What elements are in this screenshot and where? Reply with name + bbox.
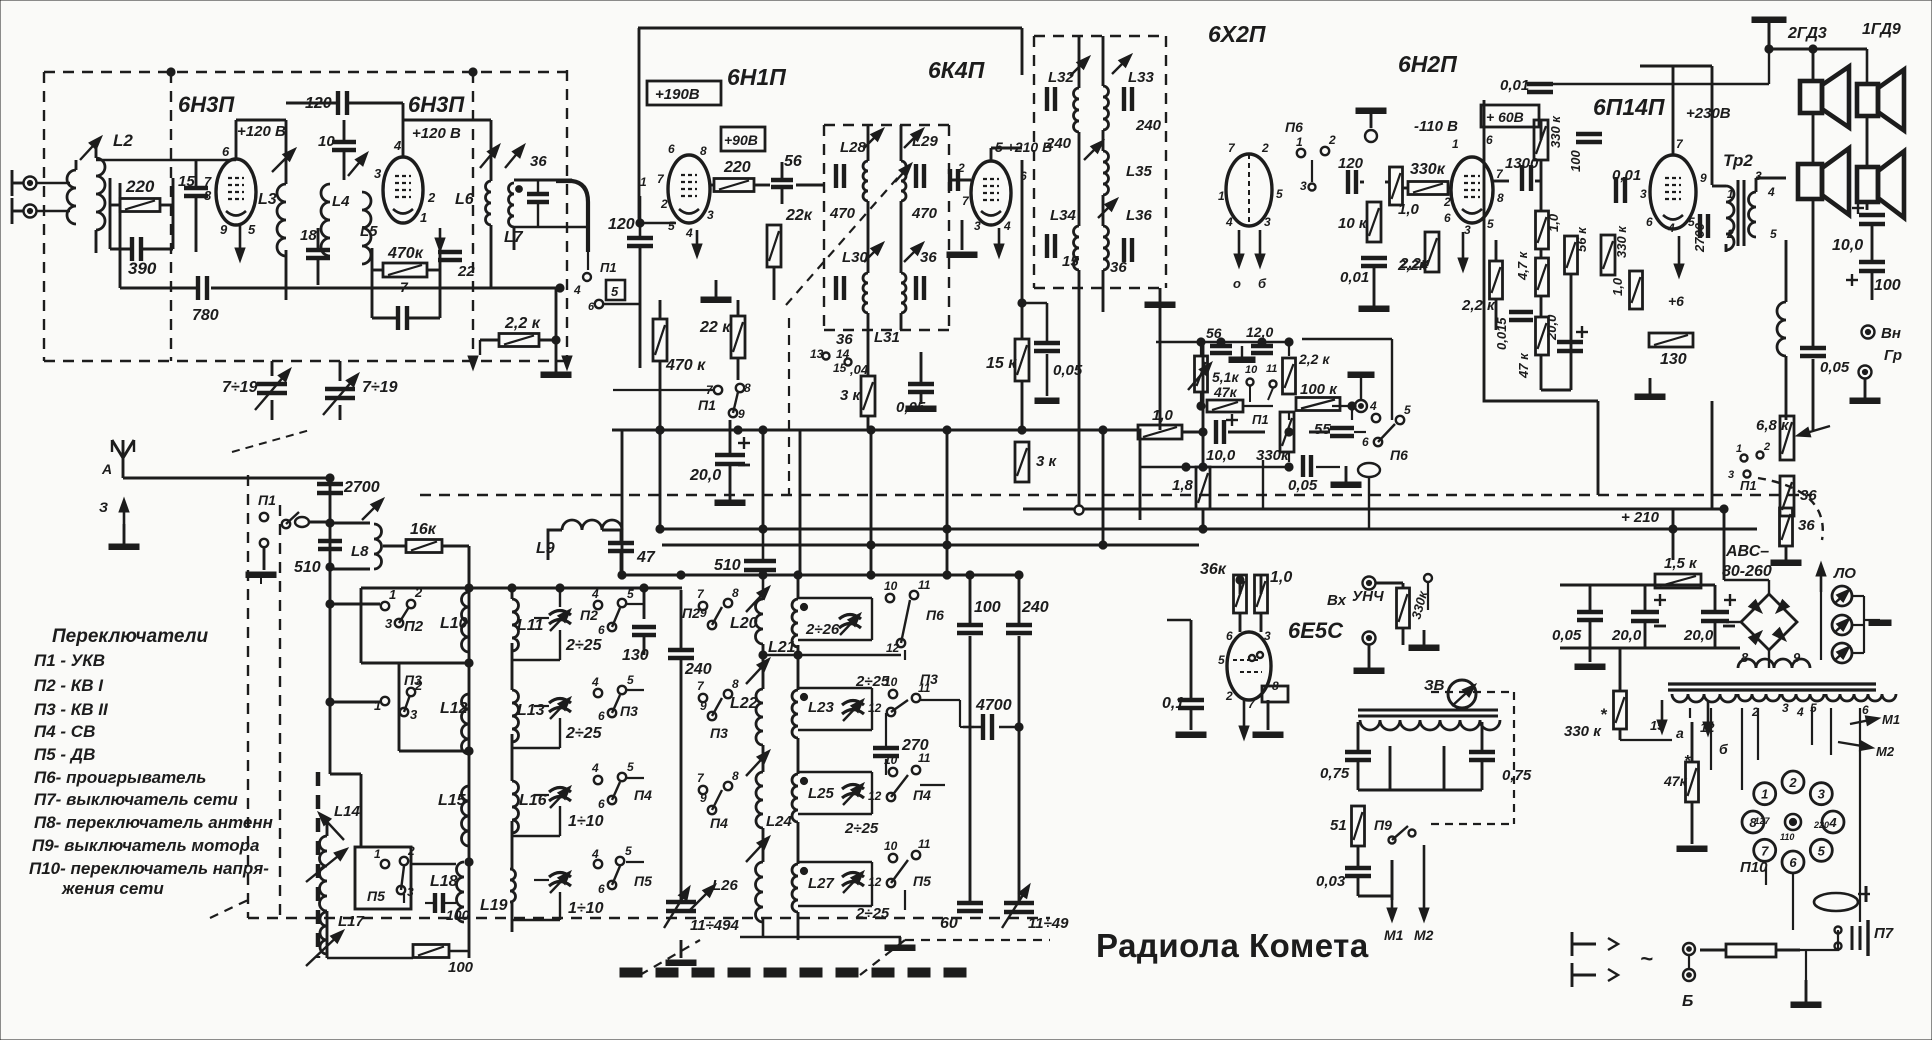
svg-text:L15: L15 bbox=[438, 792, 467, 809]
svg-text:780: 780 bbox=[192, 307, 219, 324]
svg-text:+190В: +190В bbox=[655, 86, 700, 103]
trimmer osc4 bbox=[842, 871, 864, 893]
tuning arrow L24 bbox=[746, 750, 770, 776]
svg-text:3: 3 bbox=[1264, 629, 1271, 643]
svg-text:L13: L13 bbox=[517, 702, 545, 719]
coil L36 bbox=[1103, 226, 1109, 270]
resistor 470к grid bbox=[653, 319, 667, 361]
tuning arrow L7 bbox=[505, 144, 525, 168]
capacitor 100 v6 bbox=[1576, 134, 1602, 142]
label 6Н1П bbox=[727, 64, 786, 90]
dashed mech link vertical bbox=[788, 318, 790, 495]
svg-text:Вн: Вн bbox=[1881, 325, 1901, 342]
wire vert 622 bbox=[621, 430, 624, 575]
svg-text:3: 3 bbox=[1818, 787, 1826, 802]
label L16 bbox=[519, 792, 547, 809]
wire socket down bbox=[1766, 867, 1793, 930]
capacitor L36 cap bbox=[1124, 238, 1132, 262]
label 120 det bbox=[1338, 155, 1364, 172]
pt pins bbox=[1650, 701, 1869, 757]
label L20 bbox=[730, 615, 758, 632]
capacitor 2700 bbox=[317, 484, 343, 493]
resistor 5,1к bbox=[1188, 356, 1212, 392]
svg-text:2: 2 bbox=[1443, 195, 1451, 209]
label 0,01 v7 bbox=[1612, 167, 1641, 184]
resistor 47к v6 bbox=[1536, 317, 1549, 355]
transformer Tr2 primary bbox=[1726, 186, 1734, 250]
svg-text:120: 120 bbox=[608, 216, 635, 233]
label 20,0 vert bbox=[1544, 314, 1559, 341]
capacitor 130 bbox=[632, 627, 656, 635]
label L22 bbox=[730, 695, 758, 712]
wire lamps bbox=[1821, 592, 1891, 660]
label L26 bbox=[690, 877, 739, 910]
svg-text:220: 220 bbox=[723, 159, 751, 176]
svg-text:10,0: 10,0 bbox=[1206, 447, 1236, 464]
antenna input jack upper bbox=[24, 177, 37, 190]
label +120 В second bbox=[412, 125, 461, 142]
label 47 bbox=[636, 549, 656, 566]
capacitor 120 det bbox=[1348, 170, 1356, 194]
coil L11 bbox=[512, 599, 519, 651]
capacitor 0,015 bbox=[1509, 312, 1533, 320]
label Б bbox=[1682, 993, 1693, 1010]
label 56 row bbox=[1206, 324, 1273, 341]
ground top right bbox=[1752, 17, 1786, 49]
capacitor grid 6к4п bbox=[950, 169, 958, 191]
label L8 bbox=[351, 543, 369, 560]
label L28 bbox=[840, 139, 867, 156]
svg-text:22: 22 bbox=[457, 263, 475, 280]
svg-text:5: 5 bbox=[1818, 843, 1826, 858]
svg-text:6: 6 bbox=[598, 623, 605, 637]
legend П4-СВ bbox=[34, 722, 95, 741]
svg-text:а: а bbox=[1676, 725, 1684, 741]
svg-text:4: 4 bbox=[591, 847, 599, 861]
label +210 В bbox=[995, 139, 1052, 155]
label 5,1к bbox=[1212, 369, 1239, 385]
wire top bus of IF box bbox=[638, 27, 1022, 30]
label L27 bbox=[808, 875, 835, 892]
coil L32 bbox=[1074, 88, 1080, 132]
svg-text:0,05: 0,05 bbox=[1288, 477, 1318, 494]
coil L22 bbox=[756, 689, 763, 745]
wire П1 to line bbox=[308, 519, 334, 527]
svg-text:L6: L6 bbox=[455, 191, 474, 208]
wire vert 763 up bbox=[759, 426, 767, 529]
svg-text:15: 15 bbox=[1062, 253, 1079, 270]
tuning arrow L6 bbox=[480, 144, 500, 168]
svg-text:4: 4 bbox=[1225, 215, 1233, 229]
bridge rectifier bbox=[1741, 594, 1797, 650]
tuner dashed diag bottom-left bbox=[210, 900, 700, 975]
tuner dashed box left edge bbox=[248, 475, 280, 918]
svg-text:10: 10 bbox=[318, 133, 335, 150]
svg-text:240: 240 bbox=[1045, 135, 1072, 152]
svg-text:5: 5 bbox=[627, 673, 634, 687]
svg-text:6К4П: 6К4П bbox=[928, 57, 985, 83]
label 20,0 b bbox=[1683, 627, 1714, 644]
wire det area bbox=[1312, 160, 1452, 188]
tuning arrow L36 bbox=[1098, 198, 1118, 218]
svg-text:М2: М2 bbox=[1414, 927, 1434, 943]
label 1,8 bbox=[1172, 477, 1194, 494]
label 10,0 bbox=[1832, 237, 1863, 254]
svg-text:330к: 330к bbox=[1410, 161, 1446, 178]
power transformer core bbox=[1668, 684, 1876, 690]
pins 10 11 mid bbox=[1245, 363, 1277, 402]
label 3 к if bbox=[840, 387, 862, 404]
capacitor 56 12 row bbox=[1210, 346, 1273, 353]
fuse bbox=[1700, 944, 1800, 957]
svg-text:3: 3 bbox=[974, 219, 981, 233]
label 6К4П bbox=[928, 57, 985, 83]
legend П7 bbox=[34, 790, 238, 809]
label 2700 vert bbox=[1692, 222, 1707, 253]
label 330 к vert bbox=[1548, 115, 1563, 148]
capacitor 10 bbox=[332, 142, 356, 150]
tuning arrow L3 bbox=[272, 148, 296, 172]
svg-text:L28: L28 bbox=[840, 139, 867, 156]
wire vert 871 bbox=[870, 430, 873, 575]
label ЛО bbox=[1833, 565, 1856, 582]
label +230В bbox=[1686, 105, 1731, 122]
tube V1 6N3P-a bbox=[216, 159, 256, 225]
terminal Вх1 bbox=[1363, 577, 1376, 590]
resistor 220 anode bbox=[714, 179, 754, 192]
svg-text:56: 56 bbox=[784, 153, 802, 170]
svg-text:0,75: 0,75 bbox=[1320, 765, 1350, 782]
svg-text:47 к: 47 к bbox=[1516, 352, 1531, 379]
tuning arrow 2700 bbox=[362, 498, 384, 520]
coil L24 bbox=[756, 772, 763, 828]
label 10 к bbox=[1338, 215, 1368, 232]
svg-text:L11: L11 bbox=[517, 617, 543, 634]
svg-text:18: 18 bbox=[300, 227, 317, 244]
pin 9 bbox=[220, 222, 228, 237]
electrolytic 10,0 bbox=[1216, 414, 1238, 444]
label 1,0 det bbox=[1398, 201, 1420, 218]
svg-text:47к: 47к bbox=[1213, 384, 1238, 400]
label L9 bbox=[536, 540, 555, 557]
box +90В bbox=[721, 127, 765, 151]
wire mid links bbox=[1138, 338, 1366, 529]
svg-text:11÷494: 11÷494 bbox=[690, 917, 739, 934]
coil L14 bbox=[320, 820, 327, 958]
resistor 47к mid bbox=[1207, 400, 1243, 412]
svg-text:110: 110 bbox=[1780, 832, 1794, 842]
switch П6b bbox=[884, 578, 944, 655]
svg-text:+6: +6 bbox=[1668, 293, 1684, 309]
svg-text:127: 127 bbox=[1754, 816, 1770, 826]
svg-text:240: 240 bbox=[1135, 117, 1162, 134]
pin 3 bbox=[374, 166, 382, 181]
resistor 36 ps bbox=[1780, 508, 1793, 546]
label L13 bbox=[517, 702, 545, 719]
svg-text:L17: L17 bbox=[338, 913, 365, 930]
label 470к ukv bbox=[387, 245, 424, 262]
svg-text:4: 4 bbox=[1369, 399, 1377, 413]
svg-text:0,75: 0,75 bbox=[1502, 767, 1532, 784]
capacitor 60 bbox=[957, 903, 983, 911]
label П1 mid bbox=[1252, 412, 1269, 427]
terminal Гр bbox=[1859, 347, 1903, 379]
wire bus mid2 bbox=[660, 525, 1757, 533]
resistor 330к v6 vert bbox=[1534, 120, 1548, 160]
svg-text:б: б bbox=[1258, 276, 1267, 291]
wire 330k ps bbox=[1620, 648, 1672, 740]
svg-text:2: 2 bbox=[1788, 775, 1797, 790]
svg-text:470: 470 bbox=[911, 205, 938, 222]
label 22к anode2 bbox=[785, 207, 813, 224]
svg-text:9: 9 bbox=[1700, 171, 1707, 185]
svg-text:11÷49: 11÷49 bbox=[1028, 915, 1069, 932]
svg-text:510: 510 bbox=[714, 557, 741, 574]
label L23 bbox=[808, 699, 835, 716]
wire bridge leads bbox=[1724, 580, 1769, 668]
label 2,2 к ukv bbox=[504, 315, 541, 332]
svg-text:7: 7 bbox=[1761, 843, 1769, 858]
label 36 ps bbox=[1798, 517, 1815, 534]
capacitor 56 top bbox=[771, 162, 793, 204]
svg-text:36: 36 bbox=[530, 153, 547, 170]
trimmer cap L13 bbox=[549, 697, 571, 719]
label 390 bbox=[128, 259, 157, 278]
label 0,05 agc bbox=[1053, 362, 1083, 379]
capacitor 0,05 agc bbox=[1018, 299, 1060, 404]
svg-text:3: 3 bbox=[1464, 223, 1471, 237]
label L5 bbox=[360, 223, 378, 240]
label 11÷49 bbox=[1028, 915, 1069, 932]
capacitor 47 bbox=[608, 543, 634, 551]
switch П1 antenna bbox=[258, 492, 309, 547]
wire row2 box bbox=[399, 663, 468, 751]
variable cap 7-19 first bbox=[255, 368, 291, 410]
svg-text:5: 5 bbox=[1770, 227, 1777, 241]
svg-text:1,0: 1,0 bbox=[1398, 201, 1420, 218]
coil L4 bbox=[321, 184, 330, 256]
label 56к vert bbox=[1574, 226, 1589, 252]
capacitor L34 cap bbox=[1047, 234, 1055, 258]
svg-text:3: 3 bbox=[1728, 469, 1734, 481]
legend П1-УКВ bbox=[34, 651, 105, 670]
svg-text:5: 5 bbox=[248, 222, 256, 237]
arrow L14 bbox=[318, 812, 344, 840]
tuning arrow L31 bbox=[904, 242, 924, 262]
svg-text:6: 6 bbox=[1862, 703, 1869, 717]
svg-text:56 к: 56 к bbox=[1574, 226, 1589, 252]
switch П5c bbox=[868, 837, 931, 889]
svg-text:220: 220 bbox=[125, 177, 155, 196]
svg-text:6: 6 bbox=[588, 301, 595, 313]
resistor 2,2к v6b bbox=[1490, 261, 1503, 299]
svg-text:330 к: 330 к bbox=[1548, 115, 1563, 148]
svg-text:15 к: 15 к bbox=[986, 355, 1017, 372]
svg-text:2: 2 bbox=[1328, 133, 1336, 147]
capacitor 0,03 bbox=[1345, 868, 1371, 876]
svg-text:5: 5 bbox=[627, 760, 634, 774]
ground 36 ps bbox=[1771, 546, 1801, 566]
wire if box bbox=[868, 125, 936, 430]
svg-text:L21: L21 bbox=[768, 639, 796, 656]
capacitor 1300 bbox=[1522, 165, 1531, 191]
svg-text:1÷10: 1÷10 bbox=[568, 813, 604, 830]
svg-text:2,2 к: 2,2 к bbox=[1298, 351, 1330, 367]
svg-text:12: 12 bbox=[886, 641, 900, 655]
svg-text:10 к: 10 к bbox=[1338, 215, 1368, 232]
label 36 spk bbox=[1800, 487, 1817, 504]
svg-text:2: 2 bbox=[660, 197, 668, 211]
tuning arrow L22 bbox=[746, 658, 770, 684]
resistor 1,0 det bbox=[1390, 167, 1403, 205]
svg-text:12: 12 bbox=[868, 789, 882, 803]
label 120 top bbox=[305, 95, 332, 112]
resistor 10к det bbox=[1367, 202, 1381, 242]
svg-text:2÷25: 2÷25 bbox=[855, 905, 890, 922]
svg-text:+ 60В: + 60В bbox=[1486, 109, 1524, 125]
electrolytic 20,0 v6 bbox=[1557, 326, 1588, 351]
svg-text:+90В: +90В bbox=[724, 132, 758, 148]
switch П3c bbox=[697, 677, 739, 741]
svg-text:П8- переключатель антенн: П8- переключатель антенн bbox=[34, 813, 273, 832]
wire L3 bbox=[280, 120, 286, 300]
svg-text:6: 6 bbox=[222, 144, 230, 159]
pin 7 bbox=[204, 174, 212, 189]
wire L8-16k bbox=[383, 546, 469, 588]
svg-text:3: 3 bbox=[1264, 215, 1271, 229]
capacitor 240b osc bbox=[1006, 625, 1032, 633]
label L19 bbox=[480, 897, 508, 914]
label 51 bbox=[1330, 817, 1347, 834]
svg-text:L8: L8 bbox=[351, 543, 369, 560]
pins 6Н2П v6 bbox=[1443, 133, 1504, 237]
wire v7 top bbox=[1640, 66, 1712, 185]
svg-text:L14: L14 bbox=[334, 803, 361, 820]
ground terminals bbox=[1850, 378, 1880, 404]
pin 6 bbox=[222, 144, 230, 159]
svg-text:L24: L24 bbox=[766, 813, 793, 830]
label 330к v7 vert bbox=[1614, 225, 1629, 258]
switch П1 bottom bbox=[698, 381, 751, 421]
wire v8 bbox=[1167, 575, 1283, 738]
coil L12 bbox=[462, 694, 469, 754]
wire varcap stubs bbox=[272, 361, 340, 420]
svg-text:8: 8 bbox=[700, 144, 707, 158]
wire 6n1p misc bbox=[660, 267, 774, 430]
svg-text:100 к: 100 к bbox=[1300, 381, 1338, 398]
wire vert 1712 bbox=[1711, 401, 1714, 509]
capacitor 120 top bbox=[338, 91, 347, 115]
wire vert right col bbox=[1597, 401, 1600, 495]
legend П6 bbox=[34, 768, 206, 787]
variable cap 7-19 second bbox=[323, 373, 359, 415]
capacitor L29 right bbox=[916, 164, 924, 188]
svg-text:7÷19: 7÷19 bbox=[222, 379, 258, 396]
electrolytic 100 spk bbox=[1846, 262, 1885, 286]
variable cap 11÷49 right bbox=[1002, 884, 1034, 928]
pin 8 bbox=[204, 188, 212, 203]
wire cap18 bbox=[317, 228, 320, 285]
svg-text:20,0: 20,0 bbox=[1544, 314, 1559, 341]
svg-text:П5: П5 bbox=[913, 873, 931, 889]
cathode arrow v6 bbox=[1458, 232, 1468, 272]
ground det bot bbox=[1359, 268, 1389, 312]
label 47к mid bbox=[1213, 384, 1238, 400]
resistor 1,0 ind bbox=[1255, 575, 1268, 613]
svg-text:0,03: 0,03 bbox=[1316, 873, 1346, 890]
wire spk caps bbox=[1871, 224, 1874, 300]
svg-text:3: 3 bbox=[1300, 179, 1307, 193]
label 10,0 h bbox=[1206, 447, 1236, 464]
svg-text:0,01: 0,01 bbox=[1500, 77, 1529, 94]
svg-text:1,0: 1,0 bbox=[1546, 213, 1561, 232]
wire antenna feed bbox=[123, 474, 334, 482]
svg-text:0,01: 0,01 bbox=[1340, 269, 1369, 286]
label 4700 bbox=[975, 697, 1012, 714]
coil L25 tank bbox=[792, 774, 808, 822]
svg-text:L35: L35 bbox=[1126, 163, 1153, 180]
label 47к ps bbox=[1663, 753, 1691, 789]
svg-text:47к: 47к bbox=[1663, 773, 1688, 789]
wire AVC bus bbox=[612, 426, 1140, 520]
resistor 1,8 bbox=[1196, 467, 1210, 509]
label 100 L18 bbox=[446, 907, 470, 923]
capacitor below 470k bbox=[372, 292, 440, 330]
svg-text:9: 9 bbox=[220, 222, 228, 237]
resistor 36 spk bbox=[1780, 476, 1794, 516]
svg-text:0,05: 0,05 bbox=[1820, 359, 1850, 376]
label 1,0 h bbox=[1152, 407, 1174, 424]
label 2÷26 bbox=[805, 621, 840, 638]
svg-text:6: 6 bbox=[598, 709, 605, 723]
dashed box motor bbox=[1431, 692, 1514, 824]
svg-text:2,2 к: 2,2 к bbox=[1461, 297, 1496, 314]
svg-text:8: 8 bbox=[1497, 191, 1504, 205]
label L29 bbox=[912, 133, 939, 150]
ground caps mid bbox=[1229, 346, 1255, 363]
trimmer cap L16 bbox=[549, 786, 571, 808]
svg-text:L4: L4 bbox=[332, 193, 350, 210]
svg-text:2ГД3: 2ГД3 bbox=[1787, 25, 1827, 42]
svg-text:22к: 22к bbox=[785, 207, 813, 224]
resistor 15к bbox=[1015, 339, 1029, 381]
label 1,0 ind bbox=[1270, 569, 1292, 586]
capacitor 0,01 top v6 bbox=[1527, 84, 1553, 92]
antenna input jack lower bbox=[24, 205, 37, 218]
svg-text:6: 6 bbox=[598, 882, 605, 896]
label 36 if bbox=[920, 249, 937, 266]
svg-text:АВС–: АВС– bbox=[1725, 543, 1769, 560]
svg-text:П9- выключатель мотора: П9- выключатель мотора bbox=[32, 836, 259, 855]
title Радиола Комета bbox=[1096, 927, 1369, 964]
wire vert 1670 bbox=[1672, 509, 1675, 560]
label 510 osc bbox=[714, 557, 741, 574]
svg-text:3 к: 3 к bbox=[1036, 453, 1058, 470]
svg-text:М2: М2 bbox=[1876, 744, 1895, 759]
wire main vert 330 bbox=[326, 523, 334, 774]
svg-text:8: 8 bbox=[732, 586, 739, 600]
capacitor 100 L18 bbox=[435, 893, 443, 913]
svg-text:2: 2 bbox=[414, 678, 423, 693]
svg-text:5: 5 bbox=[1404, 403, 1411, 417]
svg-text:2,2 к: 2,2 к bbox=[504, 315, 541, 332]
svg-text:2: 2 bbox=[1225, 689, 1233, 703]
svg-text:6Н2П: 6Н2П bbox=[1398, 51, 1457, 77]
transformer Tr2 label bbox=[1723, 151, 1753, 170]
label 470 r bbox=[911, 205, 938, 222]
svg-text:1,5 к: 1,5 к bbox=[1664, 555, 1698, 572]
capacitor 15 bbox=[184, 188, 208, 196]
